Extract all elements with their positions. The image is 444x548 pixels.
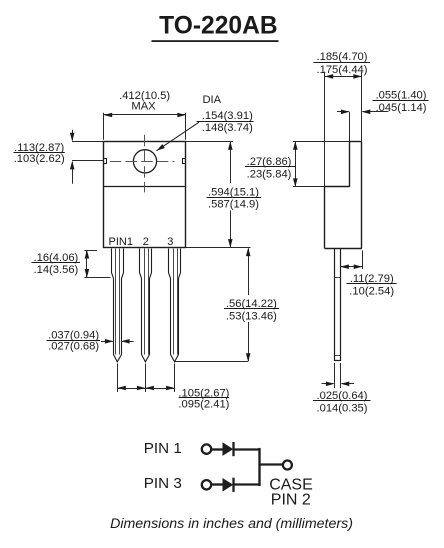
- svg-text:.10(2.54): .10(2.54): [349, 286, 394, 298]
- svg-text:.148(3.74): .148(3.74): [202, 122, 253, 134]
- svg-text:.055(1.40): .055(1.40): [376, 89, 427, 101]
- svg-text:.014(0.35): .014(0.35): [317, 402, 368, 414]
- svg-text:Dimensions in inches and (mill: Dimensions in inches and (millimeters): [110, 516, 353, 532]
- svg-text:PIN 1: PIN 1: [144, 440, 182, 457]
- svg-text:.14(3.56): .14(3.56): [34, 264, 79, 276]
- svg-text:PIN1: PIN1: [109, 236, 133, 248]
- svg-text:.045(1.14): .045(1.14): [376, 102, 427, 114]
- svg-text:TO-220AB: TO-220AB: [159, 13, 277, 40]
- svg-text:.587(14.9): .587(14.9): [208, 198, 259, 210]
- svg-text:.23(5.84): .23(5.84): [247, 168, 292, 180]
- svg-text:.095(2.41): .095(2.41): [178, 399, 229, 411]
- svg-text:3: 3: [167, 236, 173, 248]
- svg-text:2: 2: [143, 236, 149, 248]
- svg-text:.594(15.1): .594(15.1): [208, 187, 259, 199]
- svg-text:MAX: MAX: [131, 101, 156, 113]
- svg-text:.185(4.70): .185(4.70): [317, 51, 368, 63]
- svg-text:PIN 2: PIN 2: [271, 491, 311, 508]
- svg-text:.027(0.68): .027(0.68): [48, 341, 99, 353]
- svg-text:.154(3.91): .154(3.91): [202, 110, 253, 122]
- svg-text:DIA: DIA: [202, 94, 221, 106]
- svg-text:.103(2.62): .103(2.62): [14, 153, 65, 165]
- svg-text:PIN 3: PIN 3: [144, 475, 182, 492]
- svg-text:.53(13.46): .53(13.46): [226, 311, 277, 323]
